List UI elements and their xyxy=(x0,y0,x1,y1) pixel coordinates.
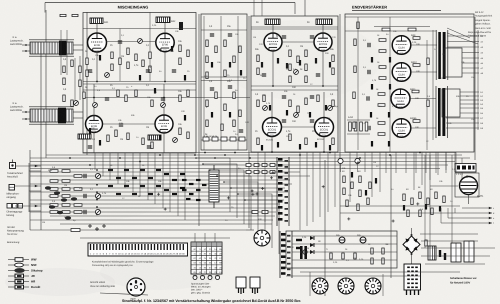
bus wire xyxy=(46,154,462,156)
small transformer core2 xyxy=(304,246,307,259)
transformer T1 loudspeaker xyxy=(29,40,74,56)
wire drop xyxy=(445,152,447,170)
wire xyxy=(340,212,455,214)
resistor xyxy=(63,66,65,73)
wire drop xyxy=(177,153,179,216)
resistor xyxy=(206,56,208,63)
small dark resistor midband xyxy=(186,198,191,200)
anode wire V11 xyxy=(409,98,436,100)
output terminal wire xyxy=(446,117,479,119)
tube socket noval view 2 xyxy=(338,278,354,294)
coupling wire V5-V6 xyxy=(103,123,155,125)
rule under right title xyxy=(352,10,441,12)
resistor xyxy=(297,106,299,113)
coupling wire V7-V8 xyxy=(281,126,314,128)
output terminal wire xyxy=(460,112,479,114)
bus wire xyxy=(50,195,282,197)
screen rail xyxy=(374,26,430,28)
resistor xyxy=(289,76,291,83)
small dark resistor xyxy=(286,110,288,116)
resistor xyxy=(367,198,369,205)
resistor xyxy=(289,64,291,71)
output terminal wire xyxy=(460,103,479,105)
capacitor xyxy=(282,96,286,98)
small resistor xyxy=(172,179,177,181)
resistor xyxy=(86,58,88,65)
divider resistor xyxy=(74,175,82,178)
signal arrow xyxy=(35,165,38,168)
tube V4 xyxy=(314,33,332,52)
bus wire xyxy=(50,215,275,217)
bus wire xyxy=(50,187,285,189)
small dark resistor xyxy=(154,88,156,94)
wire drop xyxy=(437,152,439,175)
small resistor xyxy=(116,177,121,179)
junction xyxy=(93,97,95,99)
bridge rectifier Gr1 xyxy=(403,228,420,264)
V5 cathode wire xyxy=(93,132,95,153)
supply wire xyxy=(251,28,338,30)
wire drop xyxy=(312,152,314,222)
wire xyxy=(340,205,460,207)
resistor xyxy=(63,95,65,102)
tube socket noval view 3 xyxy=(365,278,381,294)
T1 left wire xyxy=(22,44,30,46)
screened resistor above V1 xyxy=(90,18,103,24)
grid resistor xyxy=(413,64,420,67)
jack circle xyxy=(355,158,360,163)
tube V11 xyxy=(391,89,410,109)
output terminal wire xyxy=(460,107,479,109)
resistor xyxy=(142,138,144,145)
capacitor xyxy=(88,146,92,148)
small resistor xyxy=(156,169,161,171)
leader line xyxy=(100,293,148,295)
resistor xyxy=(443,196,445,203)
electrolytic under table xyxy=(208,276,212,280)
resistor xyxy=(111,64,113,71)
trimmer xyxy=(294,70,299,75)
small dark resistor xyxy=(89,128,91,134)
HT rail xyxy=(345,16,474,18)
T1 terminal xyxy=(25,44,27,46)
resistor xyxy=(111,52,113,59)
resistor xyxy=(305,138,307,145)
capacitor xyxy=(210,34,214,36)
wire drop right band xyxy=(405,152,407,173)
resistor xyxy=(187,50,189,57)
wire drop xyxy=(109,153,111,180)
resistor xyxy=(353,92,355,99)
wire drop xyxy=(139,153,141,196)
grid resistor xyxy=(378,93,385,96)
dark mark in box xyxy=(473,166,475,170)
wire drop xyxy=(356,152,358,165)
junction dot column xyxy=(96,169,98,215)
secondary winding box T4 xyxy=(442,89,460,117)
wire xyxy=(29,170,41,172)
mains wire xyxy=(246,229,254,231)
bus wire xyxy=(50,207,278,209)
dark mark in box xyxy=(457,166,460,170)
electrolytic under table xyxy=(193,276,197,280)
T3 core line xyxy=(447,30,449,80)
wire xyxy=(447,208,449,218)
small dark resistor xyxy=(211,112,213,118)
wire drop xyxy=(162,153,164,208)
small dark resistor xyxy=(388,112,390,118)
bus wire xyxy=(30,161,455,163)
resistor xyxy=(407,210,409,217)
level pot P1 xyxy=(95,173,100,178)
capacitor xyxy=(210,88,214,90)
wire xyxy=(389,17,391,152)
cross marks near fuse xyxy=(88,224,106,231)
dark capacitor xyxy=(439,250,441,257)
resistor xyxy=(224,40,226,47)
V5 wire xyxy=(93,84,95,116)
wire xyxy=(347,119,370,121)
wire above strip xyxy=(80,237,230,239)
resistor xyxy=(115,130,117,137)
V8 wire xyxy=(323,92,325,117)
small dark resistor xyxy=(351,172,353,178)
bus wire xyxy=(30,183,292,185)
capacitor xyxy=(228,34,232,36)
output terminal wire xyxy=(447,41,479,43)
resistor xyxy=(332,55,334,62)
small dark resistor xyxy=(184,115,186,121)
wire xyxy=(201,80,247,82)
coupling capacitor xyxy=(368,126,370,130)
capacitor xyxy=(239,130,243,132)
trimmer xyxy=(161,103,166,108)
PSU resistor xyxy=(371,248,373,254)
wire drop xyxy=(257,152,259,216)
pilot lamp xyxy=(303,250,307,254)
resistor xyxy=(425,240,427,246)
wire drop xyxy=(169,153,171,212)
coupling capacitor xyxy=(368,43,370,47)
input capacitor xyxy=(84,210,86,214)
transformer T2 loudspeaker xyxy=(29,107,74,124)
wire xyxy=(357,17,359,150)
bus wire xyxy=(30,164,448,166)
grid resistor xyxy=(379,50,386,53)
vertical rail right xyxy=(474,17,476,160)
magic eye wire xyxy=(430,185,458,187)
divider resistor xyxy=(62,211,70,214)
grid resistor xyxy=(412,90,419,93)
resistor xyxy=(179,45,181,52)
output terminal wire xyxy=(462,52,479,54)
resistor xyxy=(289,100,291,107)
resistor xyxy=(431,208,433,215)
T2 left wire xyxy=(22,111,30,113)
T2 wire xyxy=(73,111,83,113)
output terminal wire xyxy=(446,127,479,129)
supply wire xyxy=(251,26,338,28)
junction xyxy=(96,81,98,83)
small dark resistor xyxy=(315,58,317,64)
small dark resistor xyxy=(261,145,263,151)
V3 anode xyxy=(272,24,274,33)
small connector K2 xyxy=(236,277,246,294)
resistor xyxy=(125,95,127,102)
tube V5 xyxy=(86,116,103,134)
resistor xyxy=(257,55,259,62)
wire drop xyxy=(124,153,126,188)
resistor xyxy=(419,192,421,199)
trimmer xyxy=(93,103,98,108)
switch bank S2 contacts xyxy=(281,233,291,276)
top right notes text xyxy=(468,11,493,38)
switch bar xyxy=(279,231,281,278)
wire xyxy=(357,164,359,172)
output terminal wire xyxy=(460,91,479,93)
small dark resistor xyxy=(229,62,231,68)
grid resistor xyxy=(378,104,385,107)
divider resistor xyxy=(74,211,82,214)
resistor xyxy=(206,72,208,79)
PSU wire xyxy=(286,275,420,277)
wire xyxy=(83,89,196,91)
small resistor xyxy=(132,177,137,179)
small dark resistor xyxy=(388,141,390,147)
screened resistor above V4 xyxy=(316,19,332,25)
wire xyxy=(454,208,456,213)
electrolytic C30 xyxy=(336,234,345,243)
wire above table xyxy=(194,233,196,242)
small dark resistor xyxy=(286,63,288,69)
resistor xyxy=(332,68,334,75)
tube V7 xyxy=(263,118,282,138)
tube V2 xyxy=(156,33,174,52)
small dark resistor midband xyxy=(189,193,194,195)
vertical rail xyxy=(339,14,341,230)
small resistor xyxy=(140,185,145,187)
vertical rail xyxy=(198,14,200,226)
T1 terminal xyxy=(25,50,27,52)
divider resistor xyxy=(62,188,70,191)
resistor xyxy=(79,80,81,87)
resistor xyxy=(343,188,345,195)
PSU resistor xyxy=(330,253,332,259)
bus wire xyxy=(30,211,276,213)
coupling wire V1-V2 xyxy=(106,41,156,43)
small resistor xyxy=(148,193,153,195)
divider resistor xyxy=(50,180,58,183)
resistor xyxy=(427,58,429,65)
table header fill xyxy=(191,242,222,247)
vertical wire xyxy=(432,30,434,140)
divider resistor xyxy=(50,211,58,214)
divider resistor xyxy=(62,180,70,183)
divider resistor xyxy=(62,195,70,198)
resistor xyxy=(305,76,307,83)
grid resistor xyxy=(379,39,386,42)
contact box xyxy=(252,211,258,214)
dark mark in box xyxy=(462,166,466,170)
screened resistor below V5 xyxy=(78,134,91,139)
grid resistor xyxy=(413,37,420,40)
wire drop right band xyxy=(435,152,437,173)
junction xyxy=(163,97,165,99)
top frame tick xyxy=(294,3,296,15)
capacitor xyxy=(282,36,286,38)
scattered value labels xyxy=(42,24,475,264)
tube V10 xyxy=(392,63,411,82)
small dark resistor xyxy=(325,105,327,111)
small connector K3 xyxy=(250,277,260,294)
wire drop right band xyxy=(415,152,417,173)
bus wire xyxy=(30,199,284,201)
small resistor xyxy=(180,173,185,175)
relay contact box xyxy=(270,171,275,174)
wire drop xyxy=(132,153,134,192)
wire drop xyxy=(364,152,366,172)
T2 terminal xyxy=(25,118,27,120)
input jack Bu3 xyxy=(7,204,23,209)
small dark resistor xyxy=(99,140,101,146)
resistor xyxy=(257,68,259,75)
PSU resistor xyxy=(371,258,373,264)
relay contact box xyxy=(254,164,259,167)
supply wire xyxy=(251,89,338,91)
output terminal wire xyxy=(447,35,479,37)
small dark resistor xyxy=(371,57,373,63)
wire xyxy=(340,164,342,172)
bus wire xyxy=(30,168,440,170)
divider resistor xyxy=(50,195,58,198)
T2 terminal xyxy=(25,111,27,113)
tube V6 xyxy=(155,115,173,134)
resistor xyxy=(239,110,241,117)
vertical rail xyxy=(29,150,31,230)
label box row xyxy=(212,137,218,141)
T2 wire xyxy=(73,117,83,119)
resistor xyxy=(289,50,291,57)
wire xyxy=(60,30,62,75)
electrolytic C5 xyxy=(179,22,183,30)
wire from jack xyxy=(15,205,41,207)
terminal board St1 xyxy=(404,264,421,295)
wire drop right band xyxy=(385,152,387,173)
trimmer xyxy=(138,39,143,44)
wire xyxy=(347,133,370,135)
V2 anode wire xyxy=(164,23,166,33)
wire drop xyxy=(117,153,119,184)
switch bank S1 contacts xyxy=(278,158,288,222)
signal arrow xyxy=(35,205,38,208)
wire xyxy=(220,16,222,150)
tube socket view Sa xyxy=(254,230,270,246)
small dark resistor xyxy=(370,112,372,118)
resistor array xyxy=(360,122,363,131)
T4 core line xyxy=(435,86,437,138)
resistor xyxy=(179,58,181,65)
capacitor xyxy=(310,36,314,38)
electrolytic block C32 xyxy=(451,243,461,262)
divider resistor xyxy=(50,170,58,173)
small dark resistor xyxy=(99,55,101,61)
small dark resistor midband xyxy=(182,179,187,181)
resistor xyxy=(206,40,208,47)
resistor xyxy=(369,182,371,189)
capacitor xyxy=(146,70,150,72)
small dark resistor xyxy=(269,105,271,111)
capacitor xyxy=(262,74,266,76)
wire drop right band xyxy=(445,152,447,173)
resistor xyxy=(151,100,153,107)
vertical rail xyxy=(429,155,431,248)
electrolytic under table xyxy=(216,276,220,280)
wire drop xyxy=(371,152,373,197)
output terminal wire xyxy=(462,67,479,69)
relay contact box xyxy=(270,164,275,167)
level pot P3 xyxy=(95,209,100,214)
V2 cathode wire xyxy=(164,52,166,81)
resistor xyxy=(233,92,235,99)
resistor xyxy=(427,198,429,205)
PSU resistor xyxy=(382,258,384,264)
PSU wire xyxy=(421,240,478,242)
PSU wire xyxy=(292,235,397,237)
tube V1 xyxy=(88,33,107,53)
junction xyxy=(322,85,324,87)
wire above table xyxy=(214,233,216,242)
small dark resistor xyxy=(439,206,441,212)
wire drop xyxy=(299,152,301,230)
wire drop xyxy=(413,152,415,190)
screen resistor xyxy=(408,28,416,31)
vertical rail xyxy=(45,10,47,158)
anode wire V12 xyxy=(410,127,436,129)
V3 cathode xyxy=(272,51,274,86)
small dark resistor xyxy=(229,112,231,118)
long vertical wire xyxy=(149,12,151,81)
resistor xyxy=(357,22,359,29)
top drop wire xyxy=(304,0,306,16)
V6 cathode wire xyxy=(163,133,165,153)
long wire xyxy=(83,97,250,99)
wire from jack xyxy=(15,185,41,187)
label box row xyxy=(239,137,245,141)
electrolytic under table xyxy=(201,276,205,280)
small dark resistor xyxy=(403,205,405,211)
resistor xyxy=(239,46,241,53)
vertical rail xyxy=(248,16,250,228)
HT rail left block xyxy=(83,28,196,30)
frame wire xyxy=(309,272,311,296)
wire xyxy=(203,16,205,150)
input capacitor xyxy=(84,194,86,198)
terminal block a2 xyxy=(72,14,78,16)
resistor xyxy=(224,70,226,77)
output terminal wire xyxy=(460,99,479,101)
resistor xyxy=(179,95,181,102)
small dark resistor xyxy=(371,141,373,147)
bus wire xyxy=(30,219,273,221)
resistor xyxy=(289,134,291,141)
resistor xyxy=(305,98,307,105)
small resistor xyxy=(172,193,177,195)
T1 wire xyxy=(73,49,83,51)
coupling capacitor xyxy=(367,96,369,100)
vertical rail xyxy=(86,12,88,155)
wire drop xyxy=(461,158,463,186)
junction dots on bus xyxy=(69,152,421,166)
